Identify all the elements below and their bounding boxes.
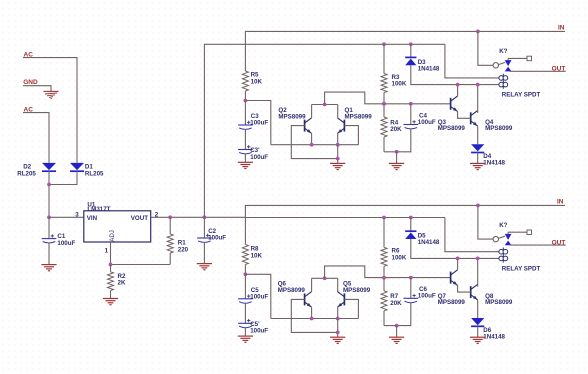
- svg-text:2K: 2K: [118, 280, 126, 287]
- svg-text:1N4148: 1N4148: [483, 160, 505, 167]
- pin 1 label: [105, 248, 109, 255]
- wire Q3 collector: [457, 85, 459, 96]
- wire D6 to ground: [477, 326, 479, 337]
- junction Q7 collector: [456, 257, 460, 261]
- svg-text:MPS8099: MPS8099: [278, 113, 306, 120]
- ground (R7/C6): [389, 337, 404, 343]
- diode D5: [405, 231, 416, 239]
- junction VIN node: [47, 215, 51, 219]
- wire AC2 to D2: [23, 113, 49, 163]
- label C6 100uF: [418, 286, 436, 300]
- label K? (top relay): [499, 48, 507, 55]
- transistor Q1: [337, 118, 344, 134]
- wire D3 top: [410, 44, 412, 57]
- label D4 1N4148: [483, 153, 505, 166]
- label Q4 MPS8099: [485, 119, 513, 132]
- svg-text:100K: 100K: [392, 81, 407, 88]
- wire Q8 collector: [477, 258, 479, 286]
- label Q3 MPS8099: [438, 119, 466, 132]
- junction base loop (bottom): [336, 331, 340, 335]
- wire D2 down to VIN node: [48, 171, 50, 217]
- svg-text:RL205: RL205: [17, 171, 36, 178]
- label R1 220: [178, 240, 189, 254]
- junction C2 top: [203, 215, 207, 219]
- ground (diff pair): [330, 163, 345, 169]
- junction R6 bottom: [382, 276, 386, 280]
- wire C6 top: [410, 278, 412, 299]
- junction Q2 emitter: [310, 143, 314, 147]
- svg-text:MPS8099: MPS8099: [343, 287, 371, 294]
- diode D6: [471, 318, 484, 326]
- svg-text:RL205: RL205: [85, 171, 104, 178]
- resistor R7: [381, 278, 387, 326]
- svg-text:10K: 10K: [251, 252, 263, 259]
- svg-text:MPS8099: MPS8099: [485, 299, 513, 306]
- wire C2 to ground: [203, 242, 205, 263]
- wire ground tap (bottom): [396, 326, 398, 338]
- junction Q3 collector: [456, 83, 460, 87]
- relay K? common contact (bottom): [493, 236, 505, 242]
- wire Q1 emitter: [337, 133, 339, 144]
- wire VIN node to U1: [49, 216, 84, 218]
- label C1 100uF: [57, 233, 75, 247]
- label Q7 MPS8099: [438, 293, 466, 306]
- wire emitter rail: [271, 144, 359, 146]
- junction IN to relay: [476, 30, 480, 34]
- label RELAY SPDT (bottom): [502, 265, 541, 272]
- wire D5 top: [410, 218, 412, 232]
- wire NC stub: [508, 57, 527, 59]
- svg-text:100uF: 100uF: [208, 235, 226, 242]
- junction R3 top: [382, 42, 386, 46]
- svg-text:MPS8099: MPS8099: [485, 125, 513, 132]
- wire Q6 collector: [311, 278, 313, 291]
- junction Q6 emitter: [310, 317, 314, 321]
- label C2 100uF: [208, 228, 226, 242]
- svg-text:D2: D2: [23, 164, 31, 171]
- label R2 2K: [118, 273, 126, 287]
- svg-text:1N4148: 1N4148: [418, 239, 440, 246]
- svg-text:1: 1: [105, 248, 109, 255]
- junction Q8 collector: [476, 257, 480, 261]
- wire C3' to ground: [244, 154, 246, 163]
- wire C5 to C5': [244, 303, 246, 323]
- wire D1 to D2 join: [49, 171, 77, 184]
- wire emitter to ground: [337, 145, 339, 164]
- label Q5 MPS8099: [343, 281, 371, 295]
- wire ADJ to R1 bottom: [111, 264, 171, 266]
- wire Q2 collector: [311, 105, 313, 118]
- wire Q7 emitter to Q8 base: [458, 285, 471, 292]
- junction R4 top: [382, 102, 386, 106]
- label R7 20K: [390, 293, 402, 307]
- svg-text:100uF: 100uF: [250, 120, 268, 127]
- junction R1 top: [168, 215, 172, 219]
- capacitor C4: [404, 120, 419, 129]
- svg-text:100uF: 100uF: [57, 240, 75, 247]
- svg-text:K?: K?: [499, 48, 507, 55]
- label Q2 MPS8099: [278, 107, 306, 121]
- ground (C5'): [238, 336, 253, 342]
- wire C2 top: [203, 217, 205, 238]
- svg-text:D1: D1: [85, 164, 93, 171]
- junction R4/C4 ground tap: [395, 150, 399, 154]
- relay K? coil: [499, 74, 508, 89]
- svg-text:RELAY SPDT: RELAY SPDT: [502, 92, 541, 99]
- node OUT (top): [552, 66, 566, 73]
- junction R5/C3: [244, 99, 248, 103]
- diode D2: [42, 163, 56, 171]
- transistor Q5: [337, 292, 344, 308]
- label Q6 MPS8099: [278, 281, 306, 295]
- wire Q8 emitter to D6: [477, 300, 479, 318]
- label R6 100K: [392, 248, 407, 262]
- resistor R3: [381, 44, 387, 104]
- wire Q4 collector: [477, 85, 479, 113]
- relay K? coil (bottom): [499, 248, 508, 263]
- svg-text:ADJ: ADJ: [109, 230, 116, 242]
- capacitor C1: [42, 234, 57, 243]
- svg-text:OUT: OUT: [552, 66, 566, 73]
- junction ADJ node: [109, 263, 113, 267]
- label R5 10K: [251, 72, 263, 86]
- svg-text:100uF: 100uF: [250, 293, 268, 300]
- ground (R2): [103, 299, 118, 305]
- svg-text:100uF: 100uF: [250, 154, 268, 161]
- label R3 100K: [392, 74, 407, 88]
- wire D4 to ground: [477, 153, 479, 164]
- label Q1 MPS8099: [345, 107, 373, 121]
- diode D3: [405, 57, 416, 65]
- junction Q4 collector: [476, 83, 480, 87]
- svg-text:20K: 20K: [390, 300, 402, 307]
- wire AC1 to D1: [23, 58, 77, 163]
- pin 2 label: [155, 212, 159, 219]
- svg-text:MPS8099: MPS8099: [278, 287, 306, 294]
- op-amp U1 LM317T box: [84, 211, 151, 242]
- wire ADJ pin down: [110, 242, 112, 265]
- svg-text:LM317T: LM317T: [87, 206, 110, 213]
- junction C4 top: [409, 102, 413, 106]
- svg-text:100uF: 100uF: [418, 119, 436, 126]
- transistor Q8: [471, 284, 478, 300]
- pin 3 label: [75, 212, 79, 219]
- junction C6 top: [409, 276, 413, 280]
- node IN (bottom): [557, 199, 564, 206]
- resistor R6: [381, 218, 387, 278]
- svg-text:IN: IN: [557, 199, 564, 206]
- svg-text:100uF: 100uF: [418, 293, 436, 300]
- transistor Q7: [451, 270, 458, 286]
- ground (C2): [197, 264, 212, 270]
- wire IN to common contact (bottom): [478, 205, 493, 239]
- capacitor C2: [197, 234, 212, 243]
- wire Q1 base loop: [344, 126, 358, 145]
- wire ground tap: [396, 152, 398, 164]
- wire R5 to emitter rail: [245, 101, 270, 145]
- transistor Q3: [451, 96, 458, 112]
- wire IN rail (top): [245, 31, 565, 71]
- wire R8 to emitter rail: [245, 274, 270, 318]
- wire D3 to coil lead: [411, 65, 499, 84]
- wire VOUT pin to rail: [151, 216, 246, 218]
- ground (GND hatch): [44, 91, 59, 99]
- svg-text:RELAY SPDT: RELAY SPDT: [502, 265, 541, 272]
- ground (C3'): [238, 162, 253, 168]
- wire collector rail: [312, 104, 338, 106]
- wire Q5 collector: [337, 278, 339, 291]
- junction R7/C6 ground tap: [395, 324, 399, 328]
- svg-text:100K: 100K: [392, 255, 407, 262]
- capacitor C3': [238, 145, 253, 154]
- junction collector rail (bottom): [323, 276, 327, 280]
- label D1 RL205: [85, 164, 104, 178]
- wire rail B to coil: [445, 44, 499, 78]
- resistor R8: [242, 245, 248, 275]
- wire OUT (bottom): [510, 244, 566, 246]
- svg-text:GND: GND: [23, 79, 38, 86]
- wire C3 top: [244, 101, 246, 126]
- svg-text:1N4148: 1N4148: [483, 333, 505, 340]
- wire R4-C4 bottom: [384, 129, 411, 152]
- wire Q6 base loop: [291, 299, 337, 332]
- svg-text:220: 220: [178, 246, 189, 253]
- diode D4: [471, 144, 484, 152]
- transistor Q2: [305, 118, 312, 134]
- label D3 1N4148: [418, 59, 440, 72]
- capacitor C5: [238, 294, 253, 303]
- wire emitter rail (bottom): [271, 318, 359, 320]
- wire R7-C6 bottom: [384, 303, 411, 326]
- wire C5' to ground: [244, 328, 246, 337]
- svg-text:IN: IN: [558, 25, 565, 32]
- junction D5 top: [409, 216, 413, 220]
- resistor R5: [242, 71, 248, 101]
- junction D3 top: [409, 42, 413, 46]
- wire IN rail (bottom): [245, 205, 565, 244]
- capacitor C5': [238, 319, 253, 328]
- transistor Q4: [471, 111, 478, 127]
- label C3' 100uF: [250, 147, 268, 161]
- wire VOUT rail (to right half): [245, 217, 445, 219]
- ground (diff pair bottom): [330, 337, 345, 343]
- svg-text:10K: 10K: [251, 79, 263, 86]
- node OUT (bottom): [552, 239, 566, 246]
- junction Q1 emitter: [336, 143, 340, 147]
- svg-text:3: 3: [75, 212, 79, 219]
- wire Q1 collector: [337, 105, 339, 118]
- junction base loop: [336, 157, 340, 161]
- label C5 100uF: [250, 287, 268, 301]
- terminal NC square: [527, 56, 532, 61]
- wire collector rail to bus: [325, 92, 451, 104]
- wire collector rail to bus (bottom): [325, 266, 451, 278]
- wire Q7 collector: [457, 258, 459, 269]
- wire Q2 emitter: [311, 133, 313, 144]
- label R8 10K: [251, 246, 263, 260]
- svg-text:1N4148: 1N4148: [418, 65, 440, 72]
- wire Q2 base loop: [291, 126, 337, 159]
- node AC (bottom): [24, 106, 34, 113]
- svg-text:OUT: OUT: [552, 239, 566, 246]
- svg-text:100uF: 100uF: [250, 328, 268, 335]
- label U1 LM317T: [87, 201, 110, 213]
- wire C3 to C3': [244, 129, 246, 149]
- svg-text:MPS8099: MPS8099: [438, 125, 466, 132]
- wire OUT (top): [510, 70, 566, 72]
- wire IN to common contact: [478, 31, 493, 65]
- terminal NC square (bottom): [527, 230, 532, 235]
- wire Q3 emitter to Q4 base: [458, 112, 471, 119]
- wire collector rail (bottom): [312, 277, 338, 279]
- junction collector rail: [323, 103, 327, 107]
- resistor R2: [108, 265, 114, 299]
- wire emitter to ground (bottom): [337, 319, 339, 338]
- wire D5 to coil lead (bottom): [411, 239, 499, 258]
- junction R3 bottom: [382, 102, 386, 106]
- label D2 RL205: [17, 164, 36, 178]
- relay K? common contact: [493, 62, 505, 68]
- label C4 100uF: [418, 112, 436, 126]
- ground (D6): [470, 337, 485, 343]
- wire C1 to ground: [48, 243, 50, 265]
- label D5 1N4148: [418, 233, 440, 246]
- wire C5 top: [244, 274, 246, 299]
- label C3 100uF: [250, 113, 268, 127]
- node IN (top): [558, 25, 565, 32]
- svg-text:MPS8099: MPS8099: [438, 299, 466, 306]
- wire rail B riser: [204, 44, 445, 217]
- relay K? contacts: [505, 58, 512, 71]
- ground (R4/C4): [389, 163, 404, 169]
- diode D1: [70, 163, 84, 171]
- wire Q6 emitter: [311, 307, 313, 318]
- junction R6 top: [382, 216, 386, 220]
- wire C4 top: [410, 104, 412, 125]
- ground (D4): [470, 163, 485, 169]
- svg-text:VOUT: VOUT: [131, 215, 148, 222]
- resistor R4: [381, 104, 387, 152]
- transistor Q6: [305, 292, 312, 308]
- svg-text:K?: K?: [499, 222, 507, 229]
- svg-text:VIN: VIN: [87, 215, 98, 222]
- label RELAY SPDT (top): [502, 92, 541, 99]
- wire NC stub (bottom): [508, 231, 527, 233]
- junction D1-D2: [47, 183, 51, 187]
- resistor R1: [167, 217, 173, 264]
- junction IN to relay (bottom): [476, 204, 480, 208]
- wire Q5 emitter: [337, 307, 339, 318]
- node GND: [23, 79, 38, 86]
- label D6 1N4148: [483, 327, 505, 340]
- wire Q4 emitter to D4: [477, 126, 479, 144]
- node AC (top): [24, 51, 34, 58]
- label K? (bottom relay): [499, 222, 507, 229]
- junction Q5 emitter: [336, 317, 340, 321]
- wire Q5 base loop: [344, 299, 358, 318]
- wire VIN node to C1: [48, 217, 50, 238]
- svg-text:20K: 20K: [390, 126, 402, 133]
- svg-text:MPS8099: MPS8099: [345, 113, 373, 120]
- label R4 20K: [390, 119, 402, 133]
- relay K? contacts (bottom): [505, 232, 512, 245]
- label C5' 100uF: [250, 321, 268, 335]
- ground (C1): [41, 265, 56, 271]
- wire GND label to ground: [23, 86, 51, 92]
- capacitor C6: [404, 294, 419, 303]
- label Q8 MPS8099: [485, 293, 513, 306]
- wire VOUT rail to coil (bottom): [445, 218, 499, 252]
- capacitor C3: [238, 121, 253, 130]
- junction R8/C5: [244, 272, 248, 276]
